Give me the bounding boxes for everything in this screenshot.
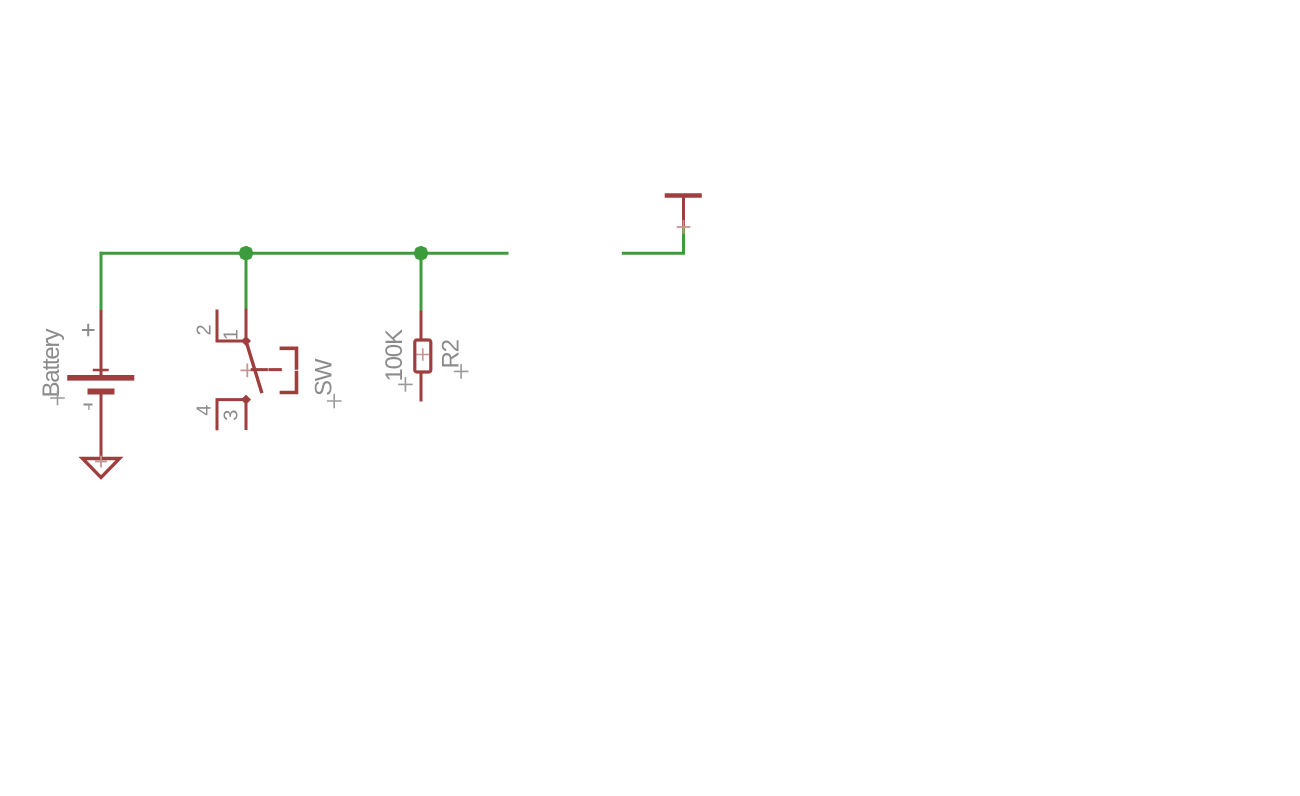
resistor R2 body — [415, 340, 431, 372]
battery plus tick — [94, 369, 108, 371]
switch SW pin1 lead — [245, 310, 248, 341]
svg-text:Battery: Battery — [38, 329, 65, 398]
battery minus origin tick — [88, 405, 90, 409]
label R2 origin cross — [455, 365, 468, 378]
label SW origin cross — [328, 395, 341, 408]
battery BAT top pin — [100, 312, 103, 376]
power symbol origin cross — [678, 221, 690, 233]
switch pin2 lead — [217, 311, 246, 341]
switch button top bracket — [281, 348, 296, 368]
switch lever — [246, 341, 261, 392]
wire top rail to R2 — [420, 253, 423, 312]
switch pin3 dot — [241, 395, 251, 405]
power symbol bar — [667, 193, 700, 198]
ground origin cross — [96, 457, 106, 467]
battery + polarity label — [83, 325, 94, 335]
wire top rail left segment — [101, 252, 507, 255]
power symbol stem — [682, 196, 685, 225]
resistor R2 top pin — [420, 312, 423, 340]
svg-text:100K: 100K — [381, 329, 408, 381]
junction battery/switch node — [239, 246, 254, 261]
svg-text:2: 2 — [194, 325, 216, 336]
wire battery+ to top rail — [100, 253, 103, 311]
wire top rail to switch pin1 — [245, 253, 248, 310]
battery long plate — [70, 375, 132, 381]
label 100K origin cross — [399, 378, 412, 391]
switch button bottom bracket — [281, 373, 296, 393]
battery bottom pin — [100, 392, 103, 459]
wire Q1 drain to power — [623, 225, 683, 253]
resistor R2 bottom pin — [420, 372, 423, 400]
junction R2 top node — [414, 246, 429, 261]
battery short plate — [91, 389, 112, 395]
switch origin cross — [241, 364, 253, 376]
svg-text:4: 4 — [194, 405, 216, 416]
switch pin3 lead — [245, 400, 248, 429]
label Battery origin cross — [51, 392, 64, 405]
svg-text:1: 1 — [221, 329, 243, 340]
switch pin4 lead — [217, 400, 246, 429]
svg-text:SW: SW — [311, 358, 338, 396]
switch dashed actuator link — [252, 368, 280, 371]
ground under battery — [83, 459, 120, 478]
svg-text:3: 3 — [221, 410, 243, 421]
battery - polarity label — [85, 404, 92, 406]
resistor R2 origin cross — [417, 349, 428, 360]
switch pin1 dot — [241, 336, 251, 346]
